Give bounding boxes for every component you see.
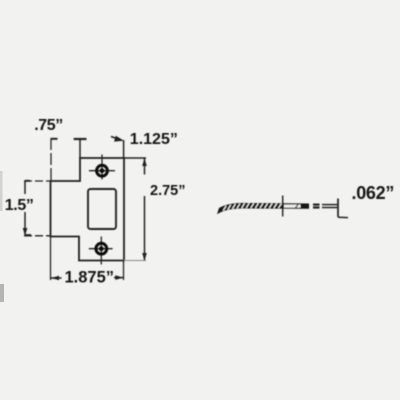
- latch opening: [88, 189, 116, 229]
- svg-text:2.75”: 2.75”: [150, 183, 185, 199]
- screw hole top: [89, 155, 115, 180]
- svg-text:1.125”: 1.125”: [130, 131, 178, 148]
- dimension 1.875 extension right: [123, 261, 125, 281]
- dimension 1.5 extension dashed top: [24, 180, 52, 182]
- svg-text:1.5”: 1.5”: [5, 197, 34, 214]
- thickness extension vertical line: [337, 199, 339, 218]
- side view dash-dot extension lines: [313, 205, 338, 208]
- dimension 1.5 line with arrows: [23, 181, 31, 236]
- dimension .75 / 1.125 shared arrow at plate left edge: [74, 139, 87, 158]
- dimension 1.5 extension dashed bottom: [24, 235, 51, 237]
- screw hole bottom: [89, 237, 113, 265]
- dimension 1.875 extension left: [50, 237, 52, 281]
- dimension 2.75 extension bottom: [124, 260, 146, 262]
- dimension 2.75 extension top: [124, 157, 146, 159]
- thickness extension foot tick: [338, 216, 348, 218]
- side view: curved strike plate profile with section hatching: [218, 203, 309, 213]
- svg-text:.75”: .75”: [34, 117, 63, 134]
- strike plate outline (front view): [51, 158, 125, 261]
- side view vertical centerline: [282, 196, 284, 217]
- dimension 1.125 arrow right: [111, 136, 124, 158]
- scan smudge left edge upper: [0, 171, 3, 211]
- svg-text:.062”: .062”: [352, 183, 395, 203]
- dimension .75 extension line left: [51, 138, 58, 181]
- scan smudge left edge lower: [0, 284, 4, 302]
- dimension 1.875 line with arrows: [51, 275, 124, 280]
- dimension 2.75 line with arrows: [142, 158, 147, 261]
- svg-text:1.875”: 1.875”: [65, 269, 115, 287]
